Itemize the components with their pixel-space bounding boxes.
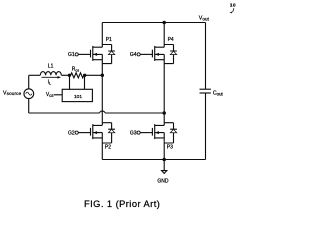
capacitor Cout xyxy=(200,89,224,97)
body diode of P4 xyxy=(164,45,177,64)
node Vcs label and wire xyxy=(46,92,62,98)
wire mid return left segment xyxy=(29,112,100,114)
mosfet body P3 xyxy=(152,123,173,151)
svg-text:G4: G4 xyxy=(130,52,137,58)
wire crossover hop xyxy=(100,111,105,113)
wire right side vertical (Cout to bottom rail) xyxy=(205,93,207,160)
ground xyxy=(157,160,169,185)
node bottom rail GND junction xyxy=(162,158,166,162)
current arrow IL xyxy=(42,76,62,86)
node resistor right terminal xyxy=(83,74,86,77)
mosfet body P4 xyxy=(152,37,174,64)
svg-text:P4: P4 xyxy=(168,37,174,43)
body diode of P1 xyxy=(102,45,115,64)
wire P1 drain from top rail xyxy=(101,23,103,45)
svg-text:P3: P3 xyxy=(167,145,173,151)
wire mid node to P3 drain xyxy=(163,113,165,123)
svg-text:Cout: Cout xyxy=(213,91,224,97)
voltage source Vsource xyxy=(3,89,34,99)
svg-text:10: 10 xyxy=(230,3,236,8)
reference numeral 10 with leader arrow xyxy=(230,3,237,14)
wire main horizontal left segment xyxy=(29,74,41,76)
body diode of P2 xyxy=(102,123,115,143)
transistor P4 xyxy=(130,37,177,64)
svg-text:FIG. 1 (Prior Art): FIG. 1 (Prior Art) xyxy=(84,199,160,209)
wire sense tap left (to block 101) xyxy=(69,75,71,89)
svg-text:G1: G1 xyxy=(68,52,75,58)
svg-text:GND: GND xyxy=(157,178,169,184)
transistor P3 xyxy=(130,123,177,151)
wire right side vertical (Vout to Cout) xyxy=(205,23,207,90)
wire mid return right segment xyxy=(105,112,164,114)
node resistor left terminal xyxy=(68,74,71,77)
mosfet body P2 xyxy=(91,123,112,151)
wire P3 source to bottom rail xyxy=(163,142,165,160)
svg-text:Rcs: Rcs xyxy=(72,67,80,73)
svg-text:G3: G3 xyxy=(130,130,137,136)
wire switch node down to P2 xyxy=(101,75,103,122)
svg-text:P2: P2 xyxy=(105,145,111,151)
resistor Rcs xyxy=(69,67,85,78)
wire P4 drain from top rail xyxy=(163,23,165,45)
gate terminal G4 xyxy=(130,52,153,58)
svg-text:101: 101 xyxy=(74,94,82,100)
node switch node left bridge xyxy=(101,74,105,78)
node top rail P4 junction xyxy=(162,21,166,25)
svg-text:IL: IL xyxy=(48,80,52,86)
body diode of P3 xyxy=(164,123,177,143)
gate terminal G2 xyxy=(68,130,91,136)
wire sense tap right (to block 101) xyxy=(84,75,86,89)
wire Vsource top to main horizontal xyxy=(28,75,30,89)
wire Vsource bottom xyxy=(28,99,30,114)
gate terminal G3 xyxy=(130,130,153,136)
transistor P1 xyxy=(68,37,115,64)
svg-text:Vcs: Vcs xyxy=(46,92,54,98)
wire top rail (Vout rail) xyxy=(102,22,205,24)
mosfet body P1 xyxy=(91,37,113,64)
wire bottom rail (GND rail) xyxy=(102,159,205,161)
transistor P2 xyxy=(68,123,115,151)
wire inductor to resistor xyxy=(61,74,69,76)
svg-text:G2: G2 xyxy=(68,130,75,136)
svg-text:Vout: Vout xyxy=(199,16,210,22)
svg-text:L1: L1 xyxy=(48,64,54,70)
wire P4 source to mid node xyxy=(163,64,165,113)
node mid return junction xyxy=(162,111,166,115)
wire P2 source to bottom rail xyxy=(101,142,103,160)
wire P1 source to switch node xyxy=(101,64,103,76)
wire resistor to switch node xyxy=(85,74,102,76)
node Vout label xyxy=(199,16,210,22)
inductor L1 xyxy=(40,64,61,76)
block 101 current sense xyxy=(62,89,92,101)
gate terminal G1 xyxy=(68,52,91,58)
svg-text:Vsource: Vsource xyxy=(3,90,22,96)
svg-text:P1: P1 xyxy=(106,37,112,43)
